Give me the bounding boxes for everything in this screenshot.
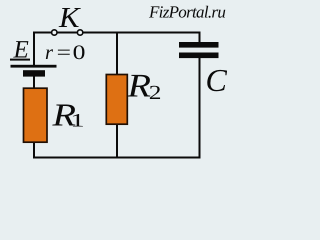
svg-text:K: K — [58, 2, 81, 34]
wire capacitor to bottom — [199, 57, 201, 159]
wire R2 to bottom node — [116, 123, 118, 158]
label E underline — [10, 59, 30, 61]
switch K contact circle left — [52, 30, 57, 35]
svg-text:FizPortal.ru: FizPortal.ru — [148, 3, 225, 22]
switch K contact circle right — [77, 30, 82, 35]
capacitor C bottom plate — [179, 53, 219, 59]
battery E short thick plate — [23, 70, 45, 76]
wire R1 to bottom node — [33, 141, 35, 159]
svg-text:R: R — [126, 69, 151, 105]
svg-text:r: r — [45, 42, 54, 64]
wire right vertical top (to capacitor) — [199, 32, 201, 44]
resistor R1 — [24, 88, 48, 142]
svg-text:=: = — [57, 42, 71, 64]
wire left vertical (E to R1 branch) — [33, 32, 35, 66]
svg-text:0: 0 — [73, 42, 86, 64]
capacitor C top plate — [179, 42, 219, 48]
wire battery to R1 — [33, 77, 35, 90]
wire middle branch top (node to R2) — [116, 33, 118, 76]
svg-text:2: 2 — [149, 82, 162, 104]
resistor R2 — [106, 75, 127, 125]
wire top (node between switch and capacitor branch) — [34, 32, 200, 34]
svg-text:C: C — [206, 62, 228, 98]
battery E long plate — [11, 65, 57, 68]
wire bottom — [33, 157, 200, 159]
svg-text:1: 1 — [70, 111, 84, 132]
